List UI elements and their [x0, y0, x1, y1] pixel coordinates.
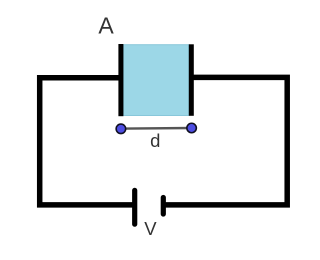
capacitor C1 right plate — [189, 44, 194, 116]
distance d measurement line — [121, 127, 192, 130]
wire right branch: right plate to right side, down, bottom to battery — [165, 77, 288, 204]
battery V long plate (+) — [132, 190, 137, 224]
capacitor C1 dielectric (area A) — [123, 45, 189, 116]
svg-text:A: A — [98, 13, 114, 39]
node: left plate point — [116, 124, 126, 134]
svg-text:V: V — [144, 218, 157, 239]
battery V short plate (-) — [161, 198, 166, 215]
node: right plate point — [187, 123, 197, 133]
capacitor C1 left plate — [118, 44, 123, 116]
wire left branch: top wire to left plate, left side, bottom to battery — [40, 78, 133, 205]
svg-text:d: d — [150, 130, 160, 151]
